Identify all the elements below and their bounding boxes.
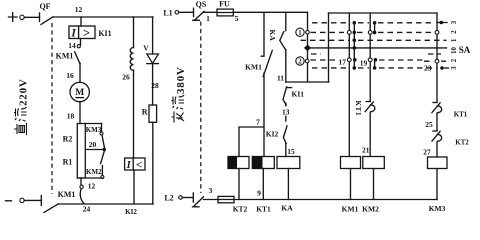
- svg-text:7: 7: [256, 118, 260, 127]
- svg-text:KM1: KM1: [245, 63, 262, 72]
- node 28: [151, 64, 159, 105]
- svg-text:9: 9: [257, 189, 261, 198]
- node 21: [362, 113, 370, 157]
- undercurrent relay KI2: [125, 158, 145, 171]
- svg-text:>: >: [83, 26, 90, 40]
- node 7: [256, 73, 264, 157]
- wire: [239, 127, 264, 157]
- label DC 220V: [14, 78, 30, 135]
- wire: [285, 12, 287, 30]
- starting resistor R2 R1: [63, 124, 86, 179]
- svg-text:R1: R1: [63, 158, 73, 167]
- node 18: [67, 102, 80, 124]
- svg-text:26: 26: [122, 73, 130, 82]
- svg-text:M: M: [75, 88, 84, 98]
- field winding 26: [122, 17, 133, 82]
- svg-text:25: 25: [425, 120, 433, 129]
- wire SA top: [329, 12, 438, 14]
- svg-text:20: 20: [89, 140, 97, 149]
- contactor contact KM1 (lower): [58, 185, 84, 204]
- svg-text:KM1: KM1: [56, 52, 74, 61]
- svg-text:3: 3: [451, 20, 458, 24]
- wire: [24, 16, 39, 18]
- svg-text:18: 18: [67, 112, 75, 121]
- node 14: [68, 39, 80, 51]
- time delay contact KT1 (KM3 branch): [432, 103, 468, 119]
- wire: [133, 170, 135, 204]
- QS linkage dashed line: [200, 22, 202, 194]
- svg-text:220V: 220V: [18, 78, 30, 106]
- svg-text:2: 2: [451, 58, 458, 62]
- wire node 11 link: [286, 81, 329, 83]
- switch QS bottom pole: [182, 193, 203, 207]
- svg-text:L1: L1: [163, 8, 172, 17]
- svg-text:12: 12: [75, 5, 83, 14]
- fuse FU (lower): [204, 196, 235, 202]
- svg-text:5: 5: [235, 14, 239, 23]
- svg-text:KT1: KT1: [454, 111, 468, 119]
- SA position labels: [451, 20, 458, 70]
- relay contact KA: [268, 30, 286, 50]
- svg-text:11: 11: [277, 74, 284, 83]
- svg-text:3: 3: [451, 66, 458, 70]
- wire SA left: [328, 13, 330, 82]
- wire top AC bus: [233, 11, 307, 13]
- node 27: [423, 142, 437, 157]
- wire: [152, 122, 154, 204]
- plus terminal: [9, 13, 25, 22]
- node 11: [277, 50, 286, 83]
- svg-text:14: 14: [68, 41, 76, 50]
- SA row position 2 upper: [311, 31, 434, 33]
- wire: [239, 169, 263, 200]
- svg-text:12: 12: [88, 182, 96, 191]
- wire KM3 branch: [436, 13, 438, 102]
- QF linkage dashed line: [51, 23, 53, 194]
- svg-text:KT1: KT1: [354, 101, 362, 117]
- svg-text:16: 16: [66, 71, 74, 80]
- svg-text:KI2: KI2: [125, 208, 137, 216]
- svg-text:KT1: KT1: [256, 205, 271, 214]
- svg-text:KM2: KM2: [362, 205, 379, 214]
- wire bottom DC: [58, 203, 153, 205]
- svg-text:2: 2: [298, 59, 302, 66]
- breaker QF bottom pole: [24, 196, 58, 213]
- breaker QF top pole: [39, 2, 53, 25]
- wire: [351, 169, 374, 200]
- minus terminal: [6, 198, 25, 202]
- wire: [133, 70, 135, 158]
- time delay contact KT1 (KM2 branch): [354, 101, 375, 117]
- wire KM1 branch: [348, 13, 350, 157]
- svg-text:R2: R2: [63, 135, 73, 144]
- node 12 lower: [81, 178, 96, 191]
- svg-text:380V: 380V: [175, 66, 187, 94]
- svg-text:SA: SA: [459, 45, 471, 55]
- svg-text:17: 17: [339, 58, 347, 67]
- SA closed dots row3 lower: [353, 66, 377, 70]
- SA node 17: [339, 58, 357, 67]
- SA closed dots row3 upper: [353, 21, 448, 25]
- discharge resistor R: [142, 105, 157, 122]
- svg-text:28: 28: [151, 81, 159, 90]
- svg-text:KM3: KM3: [429, 204, 446, 213]
- node 16: [66, 63, 80, 82]
- svg-text:R: R: [142, 108, 148, 117]
- undercurrent relay contact KI2: [266, 126, 287, 144]
- contactor coil KM2: [363, 157, 385, 169]
- SA node 23: [424, 59, 448, 72]
- wire tap top: [85, 123, 101, 125]
- motor M armature: [70, 82, 89, 101]
- svg-text:KA: KA: [268, 30, 277, 42]
- time delay contact KT2: [432, 131, 469, 147]
- wire top DC bus: [53, 16, 153, 18]
- svg-text:KT2: KT2: [455, 139, 469, 147]
- svg-text:QS: QS: [196, 0, 207, 9]
- SA dot stems: [354, 23, 374, 68]
- node 25: [425, 114, 437, 131]
- switch QS top pole: [179, 0, 207, 20]
- wire SA feeder: [307, 12, 309, 82]
- svg-text:KA: KA: [281, 204, 293, 213]
- svg-text:21: 21: [362, 146, 370, 155]
- svg-text:23: 23: [424, 64, 432, 73]
- contactor contact KM2: [86, 150, 104, 179]
- SA closed dots row1 upper: [353, 39, 357, 43]
- contactor contact KM1 (armature): [56, 45, 81, 64]
- svg-text:13: 13: [282, 108, 290, 117]
- svg-text:1: 1: [451, 38, 458, 42]
- wire tap bottom: [77, 177, 102, 179]
- wire: [261, 12, 264, 56]
- svg-text:3: 3: [209, 186, 213, 195]
- SA closed dots row2 upper: [347, 31, 439, 35]
- contactor coil KM1: [341, 157, 361, 169]
- svg-text:15: 15: [287, 147, 295, 156]
- SA node 19: [360, 58, 377, 68]
- svg-text:27: 27: [423, 148, 431, 157]
- svg-text:L2: L2: [164, 194, 173, 203]
- wire tap middle: [85, 148, 106, 151]
- diode V: [143, 17, 158, 64]
- svg-text:KM2: KM2: [86, 168, 102, 176]
- SA row position 1 lower: [311, 53, 441, 55]
- svg-text:KM1: KM1: [58, 190, 76, 199]
- node 15: [286, 144, 295, 157]
- svg-text:V: V: [143, 44, 149, 53]
- SA row position 2 lower: [311, 60, 447, 61]
- contactor contact KM1 (self-hold): [245, 50, 272, 76]
- wire: [80, 17, 82, 26]
- svg-text:KT2: KT2: [233, 205, 248, 214]
- svg-text:1: 1: [206, 14, 210, 23]
- SA row position 0: [311, 47, 447, 49]
- contactor contact KM3: [86, 124, 105, 148]
- SA row position 3 lower: [312, 67, 437, 69]
- svg-text:KI2: KI2: [266, 130, 279, 139]
- svg-text:KI1: KI1: [292, 90, 305, 99]
- overcurrent relay KI1: [69, 26, 112, 40]
- SA closed dots row0: [353, 46, 357, 50]
- fuse FU: [204, 0, 233, 16]
- time relay coil KT2: [228, 157, 249, 169]
- svg-text:FU: FU: [219, 0, 230, 9]
- svg-text:2: 2: [451, 30, 458, 34]
- contactor coil KM3: [428, 157, 448, 169]
- svg-text:KI1: KI1: [98, 29, 111, 38]
- terminal L1: [163, 8, 178, 17]
- SA contact 1 terminal: [296, 28, 310, 37]
- terminal L2: [164, 194, 182, 203]
- overcurrent relay contact KI1: [283, 87, 304, 105]
- SA row position 3 upper: [312, 22, 434, 24]
- relay coil KA: [277, 157, 300, 169]
- svg-text:1: 1: [298, 30, 302, 37]
- svg-text:24: 24: [83, 205, 91, 214]
- wire: [287, 169, 289, 200]
- wire bottom AC bus: [234, 199, 437, 201]
- wire KM2 branch: [369, 13, 371, 101]
- svg-text:QF: QF: [39, 2, 50, 11]
- svg-text:KM1: KM1: [342, 205, 359, 214]
- time relay coil KT1: [252, 157, 274, 169]
- node 13: [281, 103, 292, 121]
- SA zero-position pointer: [304, 45, 311, 52]
- svg-text:I: I: [70, 28, 76, 40]
- wire: [436, 169, 438, 200]
- svg-text:10: 10: [451, 47, 458, 54]
- svg-text:KM3: KM3: [86, 126, 102, 134]
- SA contact 2 terminal: [296, 57, 309, 66]
- SA row position 1 upper: [301, 39, 447, 41]
- svg-text:19: 19: [360, 59, 368, 68]
- svg-text:<: <: [136, 159, 143, 171]
- label AC 380V: [172, 66, 188, 122]
